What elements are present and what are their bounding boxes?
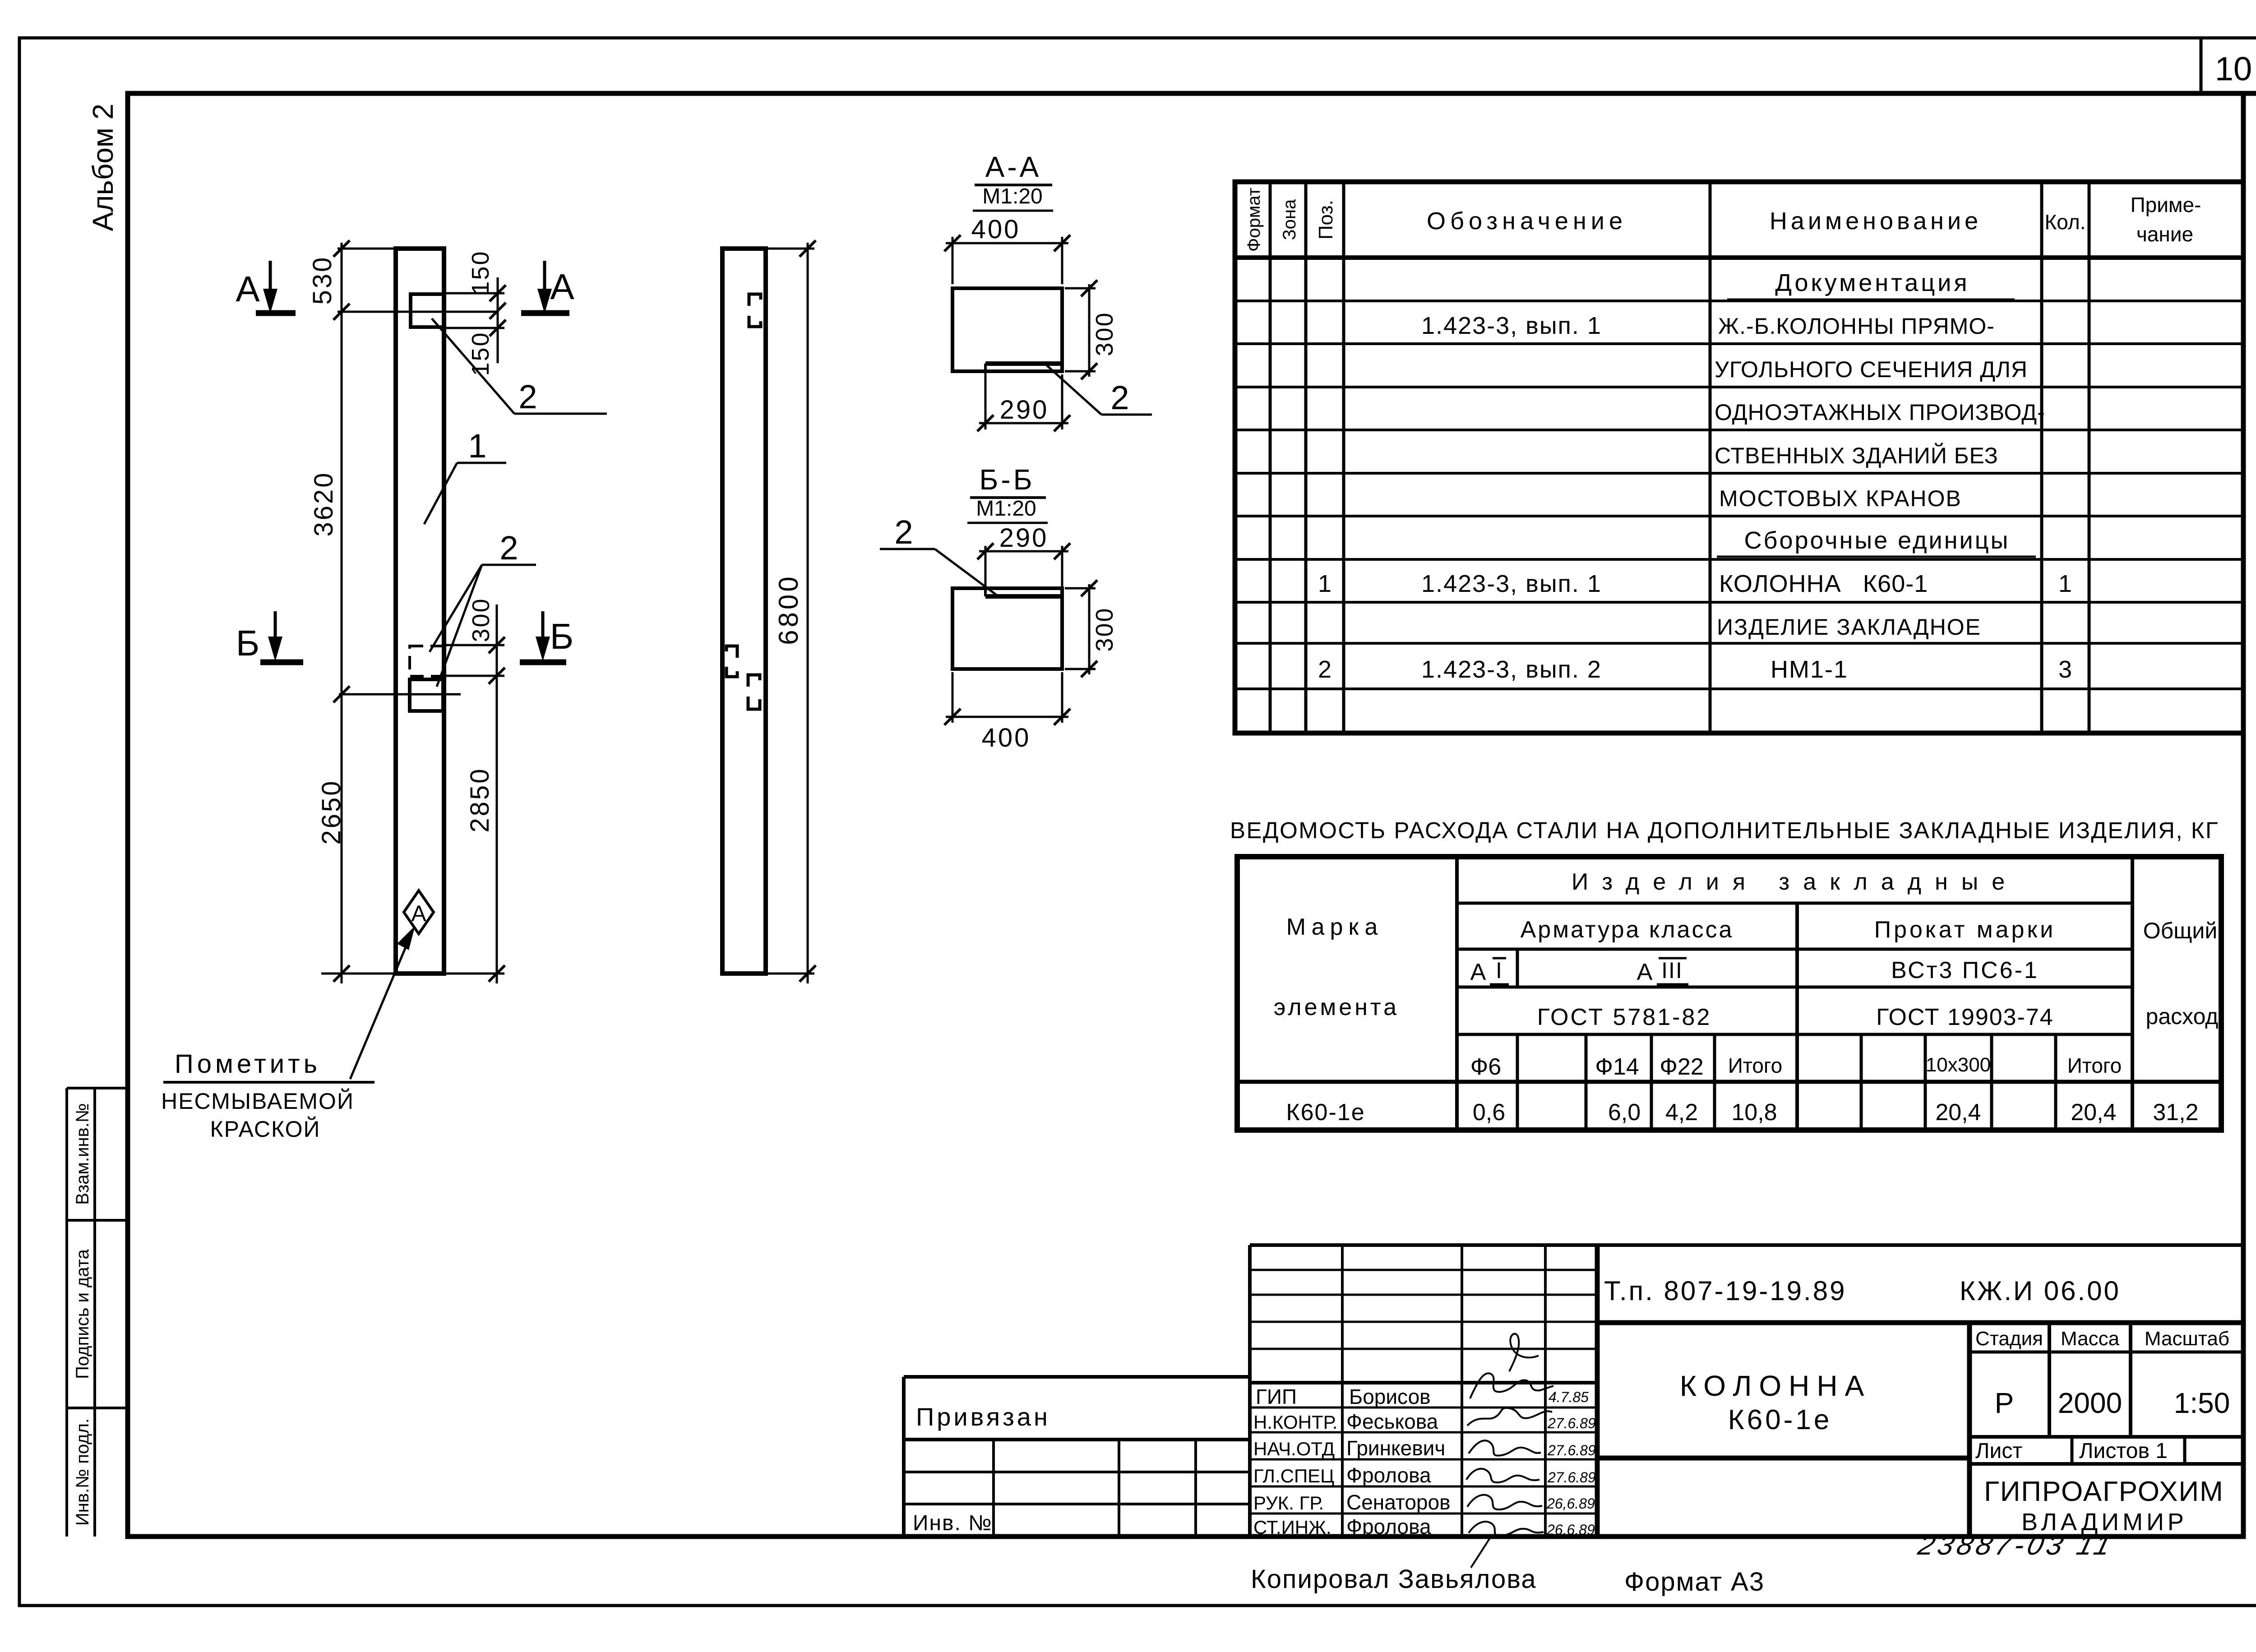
dim text 2850 — [465, 767, 495, 832]
svg-text:Инв. №: Инв. № — [913, 1511, 993, 1535]
svg-text:Итого: Итого — [2067, 1054, 2122, 1077]
svg-text:Обозначение: Обозначение — [1427, 208, 1627, 235]
svg-text:ВЕДОМОСТЬ РАСХОДА СТАЛИ НА ДОП: ВЕДОМОСТЬ РАСХОДА СТАЛИ НА ДОПОЛНИТЕЛЬНЫ… — [1230, 817, 2219, 843]
svg-text:Арматура класса: Арматура класса — [1521, 917, 1734, 943]
svg-text:20,4: 20,4 — [1935, 1099, 1981, 1126]
section B-B 290 dim — [977, 523, 1070, 596]
svg-text:СТ.ИНЖ.: СТ.ИНЖ. — [1253, 1517, 1331, 1538]
svg-text:Масса: Масса — [2061, 1328, 2120, 1350]
svg-text:150: 150 — [467, 250, 494, 295]
steel table texts — [1274, 869, 2219, 1126]
section B-B box — [952, 588, 1062, 669]
svg-text:ГЛ.СПЕЦ: ГЛ.СПЕЦ — [1253, 1465, 1334, 1486]
svg-text:400: 400 — [971, 215, 1021, 244]
embedded item 2 lower plate (solid) — [410, 679, 443, 711]
title block main lines — [1597, 1323, 2243, 1537]
bottom caption — [1251, 1564, 1765, 1597]
svg-text:НАЧ.ОТД: НАЧ.ОТД — [1253, 1438, 1335, 1459]
section A-A 290 dim — [977, 369, 1070, 431]
svg-text:Б-Б: Б-Б — [979, 463, 1035, 496]
svg-text:Кол.: Кол. — [2045, 210, 2086, 234]
svg-text:26,6.89: 26,6.89 — [1546, 1495, 1595, 1512]
svg-text:КОЛОННА: КОЛОННА — [1680, 1370, 1872, 1402]
section B-B 300 dim — [1065, 580, 1118, 677]
left dimension line — [333, 240, 350, 983]
extension lines bottom — [321, 973, 504, 975]
svg-text:Подпись и дата: Подпись и дата — [73, 1249, 92, 1379]
embedded item 2 hidden plate (dashed) — [410, 646, 443, 676]
svg-text:Ф14: Ф14 — [1595, 1054, 1639, 1080]
left margin stamp boxes — [67, 1088, 128, 1537]
svg-text:I: I — [1496, 958, 1502, 983]
section A-A level line — [337, 311, 498, 313]
leader 2 (mid plates) — [430, 529, 536, 687]
svg-text:Альбом 2: Альбом 2 — [87, 104, 119, 231]
svg-text:Т.п. 807-19-19.89: Т.п. 807-19-19.89 — [1604, 1276, 1846, 1306]
svg-text:КЖ.И 06.00: КЖ.И 06.00 — [1960, 1276, 2121, 1306]
right lower dimension line 300/2850 — [443, 605, 505, 983]
dim text 530 — [308, 256, 337, 305]
specification rows — [1318, 269, 2072, 683]
svg-text:2: 2 — [894, 513, 913, 551]
side view lower plate bracket — [748, 675, 760, 709]
svg-text:К60-1е: К60-1е — [1728, 1404, 1832, 1435]
signature table texts — [1253, 1385, 1596, 1538]
svg-text:Изделия закладные: Изделия закладные — [1572, 869, 2018, 895]
svg-text:ГОСТ 19903-74: ГОСТ 19903-74 — [1876, 1004, 2053, 1030]
extension line top — [337, 248, 396, 250]
svg-text:Формат: Формат — [1244, 188, 1264, 252]
svg-text:10: 10 — [2215, 50, 2252, 88]
svg-text:Общий: Общий — [2143, 918, 2218, 943]
svg-text:290: 290 — [1000, 395, 1049, 425]
svg-text:27.6.89: 27.6.89 — [1547, 1469, 1596, 1486]
svg-text:290: 290 — [999, 523, 1049, 553]
6800 dimension — [766, 240, 816, 983]
svg-text:Формат А3: Формат А3 — [1624, 1567, 1765, 1597]
specification header texts — [1244, 188, 2201, 252]
svg-text:А: А — [550, 267, 574, 307]
dim text 2650 — [317, 779, 346, 844]
dim text 150 upper — [467, 250, 494, 295]
svg-text:Листов 1: Листов 1 — [2079, 1439, 2168, 1463]
svg-text:Р: Р — [1995, 1387, 2014, 1419]
svg-text:ГИП: ГИП — [1256, 1385, 1297, 1408]
svg-text:Зона: Зона — [1280, 199, 1299, 240]
svg-text:ВСт3 ПС6-1: ВСт3 ПС6-1 — [1891, 957, 2039, 983]
svg-text:Прокат марки: Прокат марки — [1874, 917, 2056, 943]
svg-text:Итого: Итого — [1728, 1054, 1783, 1077]
svg-text:300: 300 — [467, 597, 495, 642]
svg-text:27.6.89: 27.6.89 — [1547, 1442, 1596, 1458]
svg-text:0,6: 0,6 — [1473, 1099, 1505, 1126]
svg-text:Масштаб: Масштаб — [2145, 1328, 2229, 1350]
dim text 300 — [467, 597, 495, 642]
svg-text:1:50: 1:50 — [2174, 1387, 2230, 1419]
svg-text:К60-1е: К60-1е — [1286, 1099, 1365, 1126]
dim text 3620 — [309, 471, 338, 536]
paint note arrow — [350, 926, 415, 1079]
specification table grid — [1235, 182, 2243, 733]
svg-text:НМ1-1: НМ1-1 — [1771, 656, 1848, 683]
right upper dimension line 150/150 — [444, 277, 506, 363]
privyazan table — [904, 1377, 1250, 1537]
svg-text:Ж.-Б.КОЛОННЫ ПРЯМО-: Ж.-Б.КОЛОННЫ ПРЯМО- — [1718, 314, 1995, 339]
svg-text:2: 2 — [1318, 656, 1331, 683]
svg-text:М1:20: М1:20 — [982, 185, 1042, 208]
svg-text:А: А — [236, 269, 260, 309]
svg-text:1: 1 — [468, 427, 486, 465]
svg-text:III: III — [1661, 958, 1683, 983]
svg-text:элемента: элемента — [1274, 994, 1399, 1020]
svg-text:300: 300 — [1091, 311, 1118, 356]
svg-text:2: 2 — [518, 378, 537, 415]
svg-text:4.7.85: 4.7.85 — [1549, 1389, 1589, 1405]
svg-text:ИЗДЕЛИЕ ЗАКЛАДНОЕ: ИЗДЕЛИЕ ЗАКЛАДНОЕ — [1717, 614, 1981, 640]
svg-text:Пометить: Пометить — [175, 1049, 321, 1079]
svg-text:Н.КОНТР.: Н.КОНТР. — [1253, 1412, 1337, 1433]
svg-text:Сенаторов: Сенаторов — [1346, 1490, 1451, 1514]
svg-text:10,8: 10,8 — [1731, 1099, 1777, 1126]
svg-text:А: А — [1470, 959, 1486, 985]
svg-text:Фролова: Фролова — [1346, 1463, 1431, 1487]
svg-text:150: 150 — [467, 331, 494, 376]
svg-text:1: 1 — [2058, 570, 2072, 597]
svg-text:2: 2 — [499, 529, 518, 567]
section B-B 400 dim — [944, 672, 1070, 752]
section B-B leader 2 — [880, 513, 997, 595]
svg-text:КОЛОННА К60-1: КОЛОННА К60-1 — [1719, 570, 1928, 597]
album label — [87, 104, 119, 231]
svg-text:СТВЕННЫХ ЗДАНИЙ БЕЗ: СТВЕННЫХ ЗДАНИЙ БЕЗ — [1715, 443, 1998, 468]
svg-text:ОДНОЭТАЖНЫХ ПРОИЗВОД-: ОДНОЭТАЖНЫХ ПРОИЗВОД- — [1715, 400, 2045, 425]
svg-text:Документация: Документация — [1775, 269, 1969, 296]
svg-text:Марка: Марка — [1286, 914, 1383, 940]
svg-text:ГОСТ 5781-82: ГОСТ 5781-82 — [1537, 1004, 1712, 1030]
svg-text:27.6.89: 27.6.89 — [1547, 1415, 1596, 1431]
svg-text:Инв.№ подл.: Инв.№ подл. — [73, 1418, 92, 1526]
svg-text:26,6.89: 26,6.89 — [1546, 1522, 1595, 1538]
svg-text:31,2: 31,2 — [2153, 1099, 2198, 1126]
svg-text:20,4: 20,4 — [2071, 1099, 2116, 1126]
svg-text:2850: 2850 — [465, 767, 495, 832]
svg-text:2: 2 — [1110, 379, 1129, 416]
section A-A leader 2 — [1047, 365, 1152, 416]
svg-text:3: 3 — [2058, 656, 2072, 683]
handwritten document number — [1915, 1530, 2118, 1561]
svg-text:Взам.инв.№: Взам.инв.№ — [73, 1103, 92, 1205]
svg-text:2650: 2650 — [317, 779, 346, 844]
section A-A heading — [973, 151, 1053, 211]
svg-text:3620: 3620 — [309, 471, 338, 536]
section B-B heading — [967, 463, 1048, 523]
svg-text:300: 300 — [1091, 607, 1118, 651]
svg-text:23887-03 11: 23887-03 11 — [1915, 1530, 2118, 1561]
svg-text:Приме-: Приме- — [2131, 193, 2201, 217]
embedded item 2 corbel plate (top) — [411, 294, 444, 327]
svg-text:Поз.: Поз. — [1315, 200, 1337, 240]
side view hidden plate bracket — [726, 646, 737, 677]
svg-text:1: 1 — [1318, 570, 1331, 597]
diamond mark A — [404, 891, 434, 934]
paint note text — [161, 1049, 374, 1142]
signature squiggles — [1466, 1334, 1553, 1568]
svg-text:1.423-3, вып. 2: 1.423-3, вып. 2 — [1421, 656, 1602, 683]
extension line 3620/2650 — [339, 693, 461, 696]
svg-text:400: 400 — [982, 723, 1031, 752]
svg-text:А-А: А-А — [985, 151, 1042, 183]
svg-text:РУК. ГР.: РУК. ГР. — [1253, 1492, 1324, 1514]
side view corbel plate bracket — [749, 294, 761, 327]
dim text 150 lower — [467, 331, 494, 376]
svg-text:М1:20: М1:20 — [976, 497, 1036, 521]
svg-text:МОСТОВЫХ КРАНОВ: МОСТОВЫХ КРАНОВ — [1719, 486, 1962, 511]
svg-text:Стадия: Стадия — [1975, 1328, 2043, 1350]
column K60-1e front view outline — [396, 249, 444, 974]
steel table grid — [1237, 857, 2221, 1130]
section mark A right — [521, 261, 574, 314]
svg-text:КРАСКОЙ: КРАСКОЙ — [210, 1116, 321, 1142]
svg-text:Б: Б — [236, 623, 260, 663]
svg-text:1.423-3, вып. 1: 1.423-3, вып. 1 — [1421, 570, 1602, 597]
svg-text:Наименование: Наименование — [1770, 208, 1982, 235]
svg-text:Привязан: Привязан — [916, 1403, 1050, 1431]
svg-text:6800: 6800 — [773, 574, 804, 645]
svg-text:530: 530 — [308, 256, 337, 305]
svg-text:Фролова: Фролова — [1346, 1515, 1431, 1538]
svg-text:10x300: 10x300 — [1926, 1054, 1991, 1076]
svg-text:чание: чание — [2136, 222, 2193, 246]
svg-text:Лист: Лист — [1975, 1439, 2022, 1463]
svg-text:А: А — [411, 901, 426, 926]
svg-text:2000: 2000 — [2058, 1387, 2122, 1419]
svg-text:ГИПРОАГРОХИМ: ГИПРОАГРОХИМ — [1984, 1476, 2224, 1507]
signature table grid — [1250, 1245, 2243, 1537]
svg-text:расход: расход — [2146, 1004, 2219, 1029]
svg-text:А: А — [1637, 959, 1653, 985]
svg-text:4,2: 4,2 — [1665, 1099, 1698, 1126]
svg-text:1.423-3, вып. 1: 1.423-3, вып. 1 — [1421, 312, 1602, 339]
section mark B left — [236, 611, 303, 663]
title block texts — [1604, 1276, 2230, 1536]
section mark A left — [236, 261, 296, 314]
svg-text:Гринкевич: Гринкевич — [1346, 1436, 1445, 1460]
svg-text:Ф22: Ф22 — [1660, 1054, 1703, 1080]
leader 1 (column) — [424, 427, 506, 524]
svg-text:Ф6: Ф6 — [1470, 1054, 1501, 1080]
sheet number box — [2201, 38, 2252, 93]
svg-text:Копировал Завьялова: Копировал Завьялова — [1251, 1564, 1537, 1594]
svg-text:Б: Б — [550, 616, 574, 656]
svg-text:НЕСМЫВАЕМОЙ: НЕСМЫВАЕМОЙ — [161, 1088, 354, 1114]
section A-A 300 dim — [1065, 280, 1118, 379]
svg-text:Борисов: Борисов — [1349, 1385, 1431, 1408]
steel consumption table title — [1230, 817, 2219, 843]
section mark B right — [520, 611, 573, 662]
column side view outline — [722, 249, 766, 974]
svg-text:6,0: 6,0 — [1608, 1099, 1641, 1126]
svg-text:Феськова: Феськова — [1346, 1410, 1438, 1433]
section A-A 400 dim — [944, 215, 1070, 284]
section A-A box — [952, 288, 1062, 371]
leader 2 (corbel plate) — [432, 318, 607, 415]
svg-text:Сборочные единицы: Сборочные единицы — [1744, 527, 2010, 554]
svg-text:УГОЛЬНОГО СЕЧЕНИЯ ДЛЯ: УГОЛЬНОГО СЕЧЕНИЯ ДЛЯ — [1715, 357, 2028, 382]
